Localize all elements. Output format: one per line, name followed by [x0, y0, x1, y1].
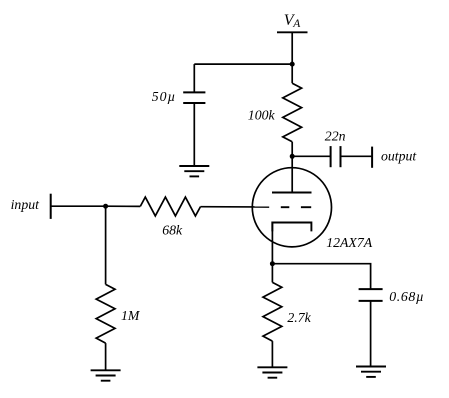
wire: input node to 68k resistor: [106, 205, 141, 207]
value label 100k: [248, 108, 276, 123]
capacitor C1 50u bottom plate: [183, 102, 205, 104]
node: supply junction dot: [290, 62, 295, 67]
wire: plate node to 22n capacitor: [292, 155, 330, 157]
svg-text:1M: 1M: [121, 308, 141, 323]
capacitor C2 22n left plate: [330, 146, 332, 167]
triode U1 grid dashes: [281, 206, 311, 208]
input terminal bar: [50, 194, 52, 219]
label input: [11, 197, 41, 212]
ground symbol (bypass branch): [356, 367, 386, 377]
wire: supply node down to 100k resistor: [291, 64, 293, 83]
triode U1 plate bar: [272, 192, 312, 194]
svg-text:22n: 22n: [325, 129, 346, 144]
resistor R2 68k: [140, 197, 200, 216]
resistor R1 100k: [283, 83, 302, 142]
svg-text:output: output: [381, 148, 417, 163]
resistor R4 1M: [96, 284, 115, 343]
wire: down from corner to 50u capacitor: [193, 64, 195, 92]
wire: input node down to 1M resistor: [105, 206, 107, 284]
label 12AX7A: [326, 235, 373, 250]
triode U1 cathode bar with hook: [272, 223, 311, 232]
wire: 100k resistor down to plate node: [291, 142, 293, 157]
ground symbol (50u branch): [179, 166, 209, 176]
svg-text:50µ: 50µ: [152, 89, 176, 104]
node: input junction dot: [103, 204, 108, 209]
power supply terminal V_A bar: [277, 31, 308, 33]
wire: cathode node to bypass branch corner: [272, 264, 370, 289]
wire: plate node down to plate bar: [291, 156, 293, 192]
svg-text:100k: 100k: [248, 108, 276, 123]
wire: 68k resistor to triode grid: [201, 206, 270, 208]
capacitor C2 22n right plate: [340, 146, 342, 167]
wire: cathode down to cathode node: [271, 223, 273, 264]
ground symbol (cathode branch): [257, 367, 287, 377]
value label 2.7k: [287, 310, 311, 325]
wire: input terminal to grid node: [51, 205, 106, 207]
triode U1 envelope circle: [252, 168, 331, 247]
wire: 2.7k resistor to ground: [271, 341, 273, 367]
wire: 1M resistor to ground: [105, 343, 107, 370]
svg-text:68k: 68k: [162, 222, 183, 237]
wire: 50u capacitor to ground: [193, 103, 195, 166]
capacitor C3 0.68u bottom plate: [359, 300, 383, 302]
wire VA bar down to supply node: [291, 32, 293, 64]
value label 68k: [162, 222, 183, 237]
svg-text:A: A: [292, 18, 301, 30]
output terminal bar: [371, 147, 373, 168]
svg-text:0.68µ: 0.68µ: [389, 289, 424, 304]
node: plate junction dot: [290, 154, 295, 159]
ground symbol (input branch): [91, 370, 121, 380]
svg-text:input: input: [11, 197, 41, 212]
wire: 22n capacitor to output terminal: [341, 155, 373, 157]
svg-text:2.7k: 2.7k: [287, 310, 311, 325]
wire: top horizontal from supply node to 50u branch: [194, 63, 292, 65]
value label 50u: [152, 89, 176, 104]
label V_A: [284, 12, 302, 30]
value label 0.68u: [389, 289, 424, 304]
wire: 0.68u capacitor to ground: [370, 301, 372, 367]
label output: [381, 148, 417, 163]
value label 1M: [121, 308, 141, 323]
resistor R3 2.7k: [263, 282, 282, 341]
wire: cathode node down to 2.7k resistor: [271, 264, 273, 283]
capacitor C1 50u top plate: [183, 91, 205, 93]
node: cathode junction dot: [270, 261, 275, 266]
svg-text:12AX7A: 12AX7A: [326, 235, 373, 250]
value label 22n: [325, 129, 346, 144]
capacitor C3 0.68u top plate: [359, 288, 383, 290]
